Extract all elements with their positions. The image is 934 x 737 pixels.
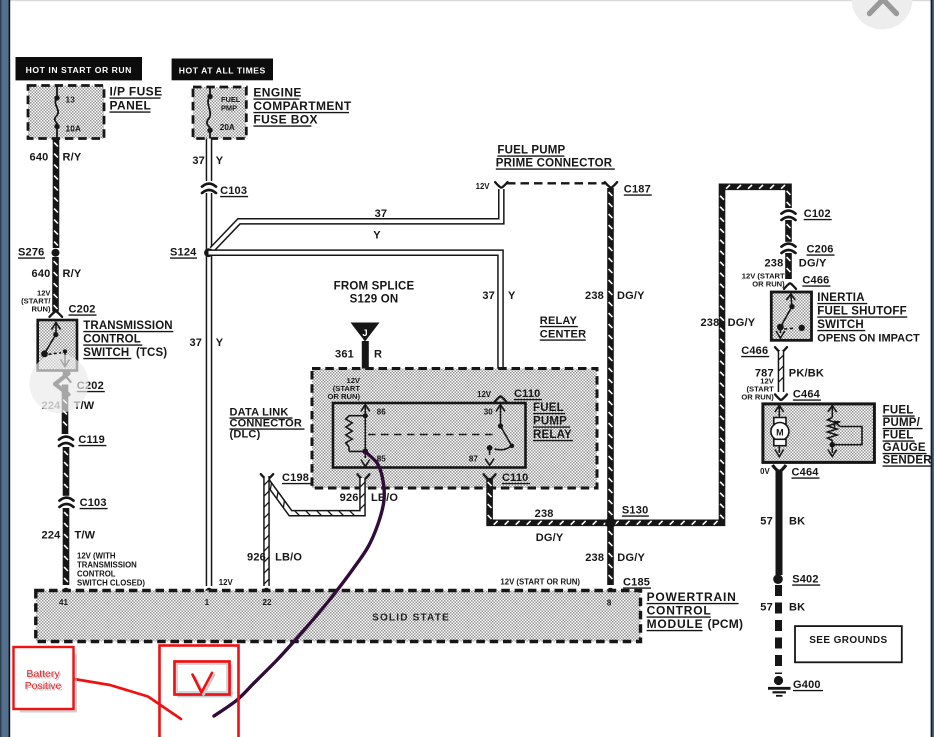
svg-text:87: 87 [469, 455, 478, 464]
svg-text:FROM SPLICE: FROM SPLICE [334, 281, 415, 293]
splice S130 [605, 518, 616, 529]
svg-text:12V: 12V [219, 578, 234, 587]
svg-text:POWERTRAIN: POWERTRAIN [647, 590, 737, 604]
svg-text:C464: C464 [792, 467, 820, 479]
svg-text:G400: G400 [793, 679, 821, 691]
svg-text:S130: S130 [622, 505, 649, 517]
connector end connector C466 bottom [775, 347, 787, 352]
svg-text:C103: C103 [80, 497, 107, 509]
svg-text:PMP: PMP [221, 104, 237, 113]
svg-text:HOT IN START OR RUN: HOT IN START OR RUN [26, 65, 132, 75]
svg-text:238: 238 [585, 552, 604, 564]
wire 926 LB/O (C198 to relay pin 85) [267, 476, 365, 516]
label box HOT AT ALL TIMES [172, 59, 273, 81]
svg-text:PUMP/: PUMP/ [883, 417, 921, 429]
connector symbol C103 lower [60, 496, 74, 507]
svg-text:SWITCH: SWITCH [83, 347, 129, 359]
svg-text:Y: Y [373, 230, 381, 242]
svg-text:OR RUN): OR RUN) [752, 280, 785, 289]
svg-text:DG/Y: DG/Y [617, 290, 645, 302]
annotation purple curve (relay 85 to battery positive box) [214, 452, 384, 716]
svg-text:12V (WITH: 12V (WITH [77, 552, 116, 561]
connector C464 bottom (black) [773, 465, 787, 472]
svg-text:238: 238 [535, 508, 554, 520]
relay switch pins 30/87 [485, 405, 511, 466]
svg-text:PANEL: PANEL [110, 99, 152, 113]
fuel gauge sender resistor [828, 406, 863, 457]
svg-text:(TCS): (TCS) [136, 347, 167, 359]
svg-text:CONTROL: CONTROL [647, 604, 712, 618]
svg-text:CONTROL: CONTROL [77, 570, 116, 579]
svg-text:R/Y: R/Y [63, 152, 82, 164]
wire 238 DG/Y (C206 to C466) [787, 253, 791, 279]
engine compartment fuse box (dashed) [193, 87, 246, 139]
svg-text:C466: C466 [741, 345, 768, 357]
svg-text:C464: C464 [793, 389, 821, 401]
svg-text:FUEL: FUEL [533, 402, 564, 414]
connector end connector C202 bottom [60, 377, 71, 382]
svg-text:SWITCH: SWITCH [817, 319, 864, 331]
svg-text:22: 22 [263, 598, 272, 607]
connector end connector C110 under pin 85 [358, 474, 370, 479]
svg-text:OR RUN): OR RUN) [741, 393, 774, 402]
svg-text:GAUGE: GAUGE [883, 442, 926, 454]
connector end connector C110 top [495, 397, 507, 402]
svg-text:HOT AT ALL TIMES: HOT AT ALL TIMES [179, 66, 266, 76]
fuse FUEL PMP 20A [207, 87, 210, 139]
wire 640 R/Y (fuse 13 to S276) [54, 139, 58, 249]
svg-text:FUEL: FUEL [883, 405, 914, 417]
svg-text:DG/Y: DG/Y [617, 552, 645, 564]
connector end prime connector hook [495, 182, 507, 187]
wire 640 R/Y (S276 to C202) [54, 257, 58, 312]
annotation red line (battery positive pointer) [62, 677, 181, 719]
svg-text:C466: C466 [802, 275, 829, 287]
fuel pump prime connector dashed link [507, 182, 606, 184]
connector end PCM pin 22 entry [260, 589, 273, 594]
label box HOT IN START OR RUN [16, 57, 143, 80]
relay linkage dashed [368, 434, 497, 436]
svg-text:41: 41 [59, 598, 68, 607]
svg-text:FUSE BOX: FUSE BOX [253, 113, 318, 127]
svg-text:I/P FUSE: I/P FUSE [110, 85, 163, 99]
svg-text:Y: Y [216, 337, 224, 349]
svg-text:S276: S276 [18, 247, 45, 259]
wire 37 Y (S124 to fuel pump prime connector) [212, 189, 501, 250]
wire 238 DG/Y (S130 to PCM pin 8) [609, 527, 613, 585]
svg-text:DG/Y: DG/Y [799, 258, 827, 270]
svg-text:30: 30 [484, 408, 493, 417]
wire 238 DG/Y (relay 87 to S130 to inertia switch feed) [488, 185, 791, 525]
svg-text:(PCM): (PCM) [708, 617, 744, 631]
left blue sidebar [0, 0, 9, 737]
connector end PCM pin 41 entry [60, 589, 73, 594]
svg-text:C110: C110 [514, 388, 541, 400]
svg-text:12V: 12V [477, 390, 492, 399]
svg-text:CENTER: CENTER [540, 329, 586, 341]
svg-text:OR RUN): OR RUN) [328, 392, 361, 401]
annotation box battery positive [14, 647, 78, 713]
connector end connector C464 top [775, 394, 787, 399]
connector symbol C206 [782, 242, 796, 253]
connector end connector C110 under pin 87 [484, 474, 496, 479]
svg-text:12V (START OR RUN): 12V (START OR RUN) [500, 578, 580, 587]
connector end connector C466 top [784, 284, 796, 289]
svg-text:RELAY: RELAY [533, 429, 572, 441]
svg-text:S402: S402 [792, 574, 819, 586]
svg-text:J: J [362, 328, 367, 339]
ground G400 [768, 676, 791, 696]
svg-text:361: 361 [335, 349, 354, 361]
connector end PCM pin 8 entry C185 [604, 589, 617, 594]
svg-text:FUEL: FUEL [883, 430, 914, 442]
svg-text:37: 37 [192, 155, 205, 167]
svg-text:57: 57 [760, 602, 773, 614]
wire 238 DG/Y (C102 to C206) [787, 220, 791, 242]
svg-text:640: 640 [32, 268, 51, 280]
wire 37 Y (C103 to S124 to PCM pin 1) [206, 193, 213, 586]
svg-text:10A: 10A [66, 125, 82, 134]
svg-text:86: 86 [377, 408, 386, 417]
svg-text:BK: BK [789, 516, 805, 528]
wire 361 R (J to relay pin 86) [362, 341, 369, 399]
annotation inner red box with V mark [175, 662, 233, 698]
connector end connector C198 [261, 474, 273, 479]
inertia switch internals [776, 294, 795, 338]
wire 224 T/W (C103 to PCM pin 41) [64, 508, 68, 585]
svg-text:C198: C198 [282, 472, 309, 484]
svg-text:PUMP: PUMP [533, 416, 567, 428]
svg-text:BK: BK [789, 602, 805, 614]
connector symbol C119 [59, 435, 73, 446]
svg-text:Y: Y [508, 290, 516, 302]
splice S124 [204, 248, 213, 257]
wire 224 T/W (C119 to C103) [64, 447, 68, 497]
transmission control switch TCS box [38, 320, 77, 371]
svg-text:0V: 0V [760, 467, 770, 476]
svg-text:C110: C110 [502, 472, 529, 484]
svg-text:CONTROL: CONTROL [83, 334, 141, 346]
svg-text:Battery: Battery [26, 668, 60, 680]
svg-text:640: 640 [30, 152, 49, 164]
svg-text:Y: Y [216, 155, 224, 167]
inertia fuel shutoff switch box [771, 292, 811, 340]
right page border [931, 0, 933, 737]
svg-text:TRANSMISSION: TRANSMISSION [83, 320, 172, 332]
svg-text:PK/BK: PK/BK [789, 368, 824, 380]
svg-text:C119: C119 [78, 434, 105, 446]
svg-text:SENDER: SENDER [883, 455, 933, 467]
relay center box (dashed) [312, 369, 597, 489]
annotation outer red box [160, 646, 239, 737]
svg-text:RUN): RUN) [32, 305, 51, 314]
svg-text:R: R [374, 349, 382, 361]
svg-text:T/W: T/W [75, 530, 96, 542]
splice S402 [773, 574, 783, 584]
connector end PCM pin 1 entry [203, 589, 216, 594]
svg-text:TRANSMISSION: TRANSMISSION [77, 561, 137, 570]
svg-text:926: 926 [247, 552, 266, 564]
svg-text:C185: C185 [623, 577, 650, 589]
svg-text:M: M [776, 427, 784, 437]
top hairline [0, 0, 934, 1]
svg-text:OPENS ON IMPACT: OPENS ON IMPACT [817, 333, 920, 345]
svg-text:DG/Y: DG/Y [728, 317, 756, 329]
svg-text:37: 37 [482, 290, 495, 302]
svg-text:20A: 20A [220, 123, 235, 132]
svg-text:13: 13 [66, 96, 76, 105]
svg-text:926: 926 [340, 492, 359, 504]
svg-text:57: 57 [760, 516, 773, 528]
fuse 13 10A [55, 86, 58, 139]
svg-text:COMPARTMENT: COMPARTMENT [253, 99, 351, 113]
fuel pump / fuel gauge sender box [763, 404, 875, 463]
svg-text:SOLID STATE: SOLID STATE [372, 613, 450, 624]
nav back circle overlay [30, 354, 89, 413]
svg-text:LB/O: LB/O [275, 552, 302, 564]
svg-text:FUEL SHUTOFF: FUEL SHUTOFF [817, 306, 907, 318]
svg-text:8: 8 [607, 599, 612, 608]
splice symbol J (from S129) [351, 323, 380, 342]
svg-text:PRIME CONNECTOR: PRIME CONNECTOR [496, 158, 613, 170]
svg-text:224: 224 [42, 530, 62, 542]
svg-text:S124: S124 [170, 247, 197, 259]
wire 37 Y (fuse to C103) [206, 139, 213, 182]
splice S276 [52, 249, 60, 257]
powertrain control module PCM box (dashed) [36, 591, 641, 642]
svg-text:C202: C202 [69, 304, 96, 316]
wire 57 BK (S402 to G400) [775, 585, 782, 674]
relay coil pins 86/85 [346, 405, 370, 467]
wire 238 DG/Y (C187 to S130) [609, 188, 613, 519]
svg-text:S129 ON: S129 ON [350, 294, 399, 306]
svg-text:37: 37 [189, 337, 202, 349]
connector symbol C103 upper [202, 182, 216, 193]
connector end connector C202 top [50, 312, 63, 317]
svg-text:SWITCH CLOSED): SWITCH CLOSED) [77, 579, 145, 588]
fuel pump motor M [771, 406, 789, 457]
svg-text:238: 238 [585, 290, 604, 302]
wire 787 PK/BK (C466 to C464) [779, 351, 784, 392]
svg-text:C103: C103 [220, 185, 247, 197]
svg-text:238: 238 [764, 258, 783, 270]
svg-text:ENGINE: ENGINE [253, 86, 301, 100]
connector end prime connector hook right [605, 182, 617, 187]
svg-text:C206: C206 [807, 244, 834, 256]
wire 224 T/W (C202 to C119) [63, 385, 67, 435]
svg-text:37: 37 [375, 208, 388, 220]
svg-text:(DLC): (DLC) [230, 429, 261, 441]
wire TCS to C202 [63, 371, 68, 377]
svg-text:INERTIA: INERTIA [817, 292, 864, 304]
svg-text:R/Y: R/Y [63, 268, 82, 280]
wire 57 BK (C464 to S402) [776, 471, 783, 575]
svg-text:238: 238 [700, 317, 719, 329]
switch TCS internals [45, 323, 70, 367]
svg-text:MODULE: MODULE [647, 617, 704, 631]
svg-text:RELAY: RELAY [540, 315, 578, 327]
svg-text:FUEL PUMP: FUEL PUMP [497, 145, 565, 157]
connector symbol C102 [782, 209, 796, 220]
svg-text:Positive: Positive [25, 680, 62, 692]
svg-text:SEE GROUNDS: SEE GROUNDS [809, 635, 887, 646]
wire 926 LB/O (C198 to PCM pin 22) [264, 476, 269, 586]
close button (top right) [852, 0, 913, 30]
I/P fuse panel box (dashed) [28, 86, 104, 139]
svg-text:1: 1 [205, 598, 210, 607]
svg-text:DG/Y: DG/Y [536, 532, 564, 544]
fuel pump relay box [333, 403, 526, 468]
svg-text:12V: 12V [476, 182, 491, 191]
SEE GROUNDS box [795, 626, 902, 662]
svg-text:C102: C102 [804, 208, 831, 220]
wire 37 Y (S124 to fuel pump relay pin 30) [209, 253, 501, 392]
svg-text:C187: C187 [624, 184, 651, 196]
